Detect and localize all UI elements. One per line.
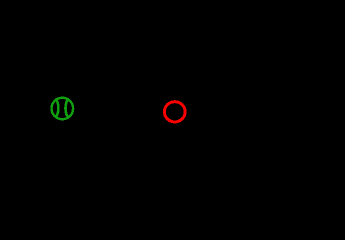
atom O (red oxygen) [164, 102, 185, 122]
atom label green left inner paren arc [55, 99, 58, 116]
atom label green right inner paren arc [66, 99, 69, 116]
atom label green outer O ring [52, 98, 74, 119]
